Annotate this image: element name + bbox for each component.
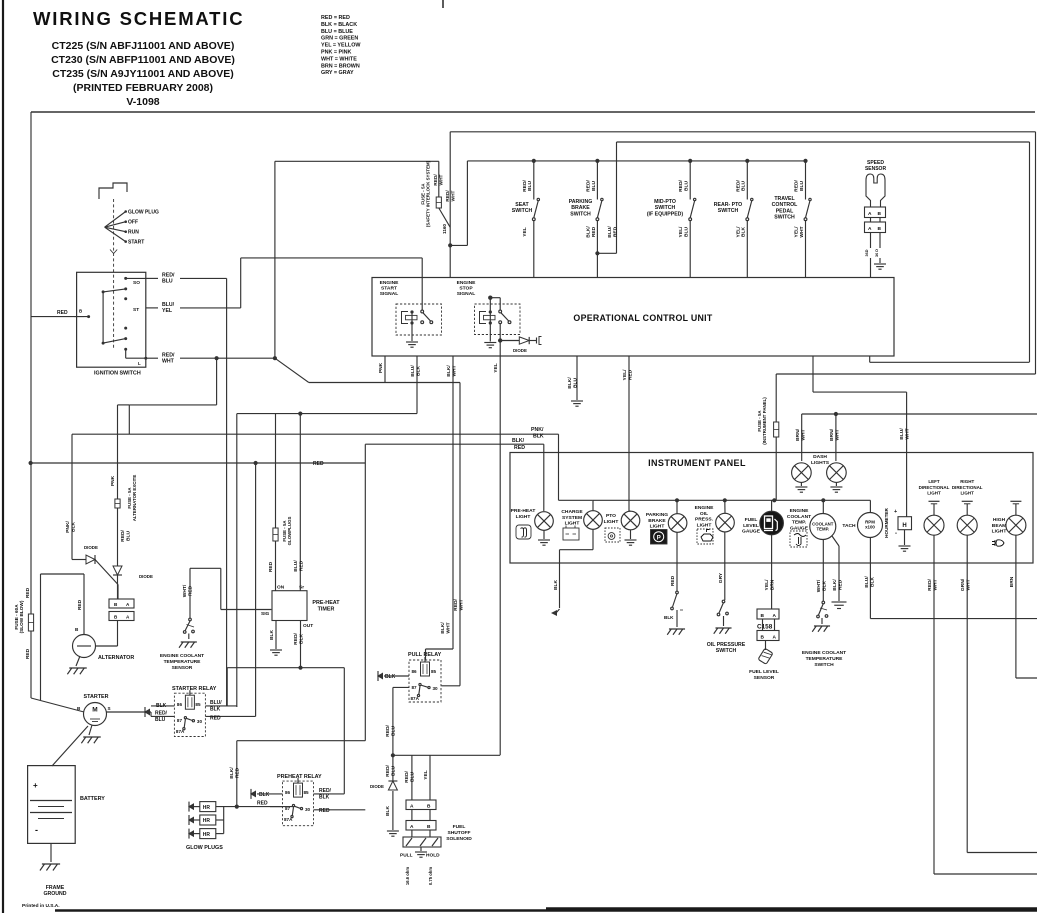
svg-text:BLU: BLU: [390, 726, 396, 737]
svg-text:SWITCH: SWITCH: [512, 208, 533, 214]
svg-text:STARTER: STARTER: [83, 694, 108, 700]
svg-text:BLU/: BLU/: [410, 365, 416, 377]
svg-text:BLK: BLK: [269, 630, 275, 641]
svg-text:COOLANT: COOLANT: [787, 514, 811, 520]
svg-text:TEMPERATURE: TEMPERATURE: [806, 656, 844, 662]
svg-text:B: B: [427, 804, 431, 810]
svg-text:RED/: RED/: [155, 711, 168, 717]
svg-text:PRESS.: PRESS.: [695, 517, 714, 523]
svg-text:LIGHT: LIGHT: [927, 491, 941, 496]
svg-text:START: START: [128, 240, 144, 246]
svg-text:HIGH: HIGH: [993, 517, 1006, 523]
svg-text:GLOWPLUGS: GLOWPLUGS: [287, 517, 292, 546]
svg-text:BLU: BLU: [684, 181, 690, 192]
svg-text:WHT: WHT: [932, 579, 938, 590]
svg-text:36 D: 36 D: [875, 249, 879, 257]
svg-text:FUEL LEVEL: FUEL LEVEL: [749, 669, 779, 675]
svg-text:0.75 ohm: 0.75 ohm: [428, 867, 433, 885]
svg-text:RED: RED: [591, 226, 597, 237]
svg-text:PREHEAT RELAY: PREHEAT RELAY: [277, 774, 322, 780]
svg-text:GRY: GRY: [718, 572, 724, 583]
svg-text:BRAKE: BRAKE: [648, 518, 666, 524]
svg-text:YEL: YEL: [162, 308, 173, 314]
svg-text:L: L: [138, 361, 141, 366]
svg-text:A: A: [410, 824, 414, 830]
svg-text:RED: RED: [234, 767, 240, 778]
svg-text:ENGINE COOLANT: ENGINE COOLANT: [160, 653, 204, 659]
svg-text:PRE-HEAT: PRE-HEAT: [511, 508, 536, 514]
svg-text:H: H: [902, 523, 906, 529]
svg-text:RED/: RED/: [319, 788, 332, 794]
svg-text:B: B: [79, 309, 82, 314]
svg-text:REAR- PTO: REAR- PTO: [714, 202, 742, 208]
svg-text:BLU: BLU: [591, 181, 597, 192]
svg-text:WIRING SCHEMATIC: WIRING SCHEMATIC: [33, 8, 244, 29]
svg-text:(SAFETY INTERLOCK SYSTEM): (SAFETY INTERLOCK SYSTEM): [426, 160, 431, 227]
svg-text:TEMP.: TEMP.: [792, 520, 807, 526]
svg-text:BLU/: BLU/: [864, 576, 870, 588]
svg-text:BLU: BLU: [155, 717, 166, 723]
svg-text:RED: RED: [25, 648, 31, 659]
svg-text:DASH: DASH: [813, 454, 827, 460]
svg-text:DIODE: DIODE: [139, 574, 153, 579]
svg-text:ON: ON: [277, 585, 285, 591]
svg-text:RED: RED: [837, 579, 843, 590]
svg-text:WHT: WHT: [904, 428, 910, 439]
svg-text:BLU: BLU: [390, 766, 396, 777]
svg-text:(SLOW BLOW): (SLOW BLOW): [19, 600, 24, 633]
svg-text:RED: RED: [298, 560, 304, 571]
svg-text:CT225 (S/N ABFJ11001 AND ABOVE: CT225 (S/N ABFJ11001 AND ABOVE): [52, 40, 235, 52]
svg-text:C158: C158: [757, 624, 773, 631]
svg-text:PRE-HEAT: PRE-HEAT: [312, 600, 340, 606]
svg-text:BLK: BLK: [298, 634, 304, 645]
svg-text:LIGHTS: LIGHTS: [811, 460, 830, 466]
svg-text:WHT: WHT: [450, 190, 456, 201]
svg-text:A: A: [410, 804, 414, 810]
svg-text:BRN: BRN: [769, 579, 775, 590]
svg-text:x100: x100: [865, 525, 875, 530]
svg-text:OIL: OIL: [700, 511, 708, 517]
svg-text:BLU: BLU: [125, 531, 131, 542]
svg-text:CHARGE: CHARGE: [561, 509, 583, 515]
svg-text:HOURMETER: HOURMETER: [884, 508, 889, 538]
svg-text:RED/: RED/: [794, 180, 800, 192]
svg-text:ALTERNATOR EXCITE: ALTERNATOR EXCITE: [132, 475, 137, 522]
svg-text:GRN = GREEN: GRN = GREEN: [321, 36, 358, 42]
svg-text:YEL = YELLOW: YEL = YELLOW: [321, 43, 361, 49]
svg-text:86: 86: [285, 790, 291, 795]
svg-text:WHT: WHT: [834, 429, 840, 440]
svg-text:YEL/: YEL/: [794, 226, 800, 238]
svg-text:BRN/: BRN/: [795, 428, 801, 441]
svg-text:RED: RED: [268, 561, 274, 572]
svg-text:RED/: RED/: [735, 180, 741, 192]
svg-text:BLU = BLUE: BLU = BLUE: [321, 29, 353, 35]
svg-text:RED: RED: [627, 369, 633, 380]
svg-text:RED/: RED/: [927, 579, 933, 591]
svg-text:B: B: [761, 613, 765, 619]
svg-text:PARKING: PARKING: [569, 199, 593, 205]
svg-text:ENGINE COOLANT: ENGINE COOLANT: [802, 650, 846, 656]
svg-text:PULL: PULL: [400, 853, 413, 859]
svg-text:BLU: BLU: [527, 181, 533, 192]
svg-text:85: 85: [304, 790, 310, 795]
svg-text:DIRECTIONAL: DIRECTIONAL: [952, 485, 983, 490]
svg-text:BRN: BRN: [1009, 576, 1015, 587]
svg-text:-: -: [35, 825, 38, 835]
svg-text:1160: 1160: [442, 224, 447, 234]
svg-text:BLK/: BLK/: [229, 767, 235, 779]
svg-text:DIODE: DIODE: [370, 784, 384, 789]
svg-text:BLU: BLU: [684, 227, 690, 238]
svg-text:BLU: BLU: [799, 181, 805, 192]
svg-text:WHT: WHT: [451, 365, 457, 376]
svg-text:YEL/: YEL/: [678, 226, 684, 238]
svg-text:LIGHT: LIGHT: [697, 522, 712, 528]
svg-text:SWITCH: SWITCH: [814, 662, 834, 668]
svg-text:YEL: YEL: [522, 227, 528, 237]
svg-text:SHUTOFF: SHUTOFF: [447, 830, 470, 836]
svg-text:A: A: [868, 211, 872, 217]
svg-text:YEL/: YEL/: [622, 369, 628, 381]
svg-text:RED/: RED/: [385, 725, 391, 737]
svg-text:YEL: YEL: [493, 363, 499, 373]
svg-text:A: A: [773, 613, 777, 619]
svg-text:RED/: RED/: [522, 180, 528, 192]
svg-text:GAUGE: GAUGE: [742, 529, 761, 535]
svg-text:BRN/: BRN/: [829, 428, 835, 441]
svg-text:INSTRUMENT PANEL: INSTRUMENT PANEL: [648, 458, 746, 468]
svg-text:HR: HR: [203, 818, 211, 824]
svg-text:BEAM: BEAM: [992, 523, 1006, 529]
svg-text:LIGHT: LIGHT: [604, 519, 619, 525]
svg-text:BLK/: BLK/: [567, 377, 573, 389]
svg-text:YEL: YEL: [423, 770, 429, 780]
svg-text:ALTERNATOR: ALTERNATOR: [98, 655, 134, 661]
svg-text:BLU: BLU: [409, 772, 415, 783]
svg-text:BLK/: BLK/: [585, 226, 591, 238]
svg-text:ENGINE: ENGINE: [695, 505, 714, 511]
svg-text:BLK: BLK: [533, 434, 544, 440]
svg-text:36D: 36D: [865, 249, 869, 256]
svg-text:BLK: BLK: [70, 522, 76, 533]
svg-text:BLK: BLK: [259, 792, 270, 798]
svg-text:IGNITION SWITCH: IGNITION SWITCH: [94, 371, 141, 377]
svg-text:RED/: RED/: [120, 530, 126, 542]
svg-text:SWITCH: SWITCH: [718, 208, 739, 214]
svg-text:BLK: BLK: [741, 227, 747, 238]
svg-text:-: -: [895, 531, 897, 537]
svg-text:PARKING: PARKING: [646, 512, 668, 518]
svg-text:ENGINE: ENGINE: [457, 280, 476, 286]
svg-text:BLK = BLACK: BLK = BLACK: [321, 22, 357, 28]
svg-text:(IF EQUIPPED): (IF EQUIPPED): [647, 211, 684, 217]
svg-text:SYSTEM: SYSTEM: [562, 515, 582, 521]
svg-text:RED/: RED/: [453, 599, 459, 611]
svg-text:V-1098: V-1098: [126, 96, 159, 108]
svg-text:PNK/: PNK/: [531, 427, 544, 433]
svg-text:S: S: [108, 706, 111, 711]
svg-text:BLK: BLK: [210, 707, 221, 713]
svg-text:LIGHT: LIGHT: [650, 524, 665, 530]
svg-text:+: +: [33, 781, 38, 790]
svg-text:LIGHT: LIGHT: [992, 529, 1007, 535]
svg-text:STARTER RELAY: STARTER RELAY: [172, 686, 217, 692]
svg-text:87: 87: [412, 685, 418, 690]
svg-text:SIGNAL: SIGNAL: [380, 291, 398, 297]
svg-text:DIRECTIONAL: DIRECTIONAL: [919, 485, 950, 490]
svg-text:RUN: RUN: [128, 230, 139, 236]
svg-text:SO: SO: [133, 280, 140, 286]
svg-text:A: A: [773, 635, 777, 641]
svg-text:GLOW PLUGS: GLOW PLUGS: [186, 845, 223, 851]
svg-text:30: 30: [197, 719, 203, 724]
svg-text:RED/: RED/: [433, 174, 439, 186]
svg-text:BATTERY: BATTERY: [80, 796, 105, 802]
svg-text:OFF: OFF: [128, 220, 138, 226]
svg-text:START: START: [381, 286, 397, 292]
svg-text:RED/: RED/: [585, 180, 591, 192]
svg-text:ENGINE: ENGINE: [790, 508, 809, 514]
svg-text:PNK: PNK: [378, 362, 384, 373]
svg-text:GAUGE: GAUGE: [790, 525, 809, 531]
svg-text:BLK/: BLK/: [446, 365, 452, 377]
svg-text:SENSOR: SENSOR: [754, 675, 775, 681]
svg-text:BLK: BLK: [415, 366, 421, 377]
svg-text:PNK = PINK: PNK = PINK: [321, 50, 352, 56]
svg-text:LEVEL: LEVEL: [743, 523, 759, 529]
svg-text:PTO: PTO: [606, 513, 616, 519]
svg-text:SWITCH: SWITCH: [774, 215, 795, 221]
svg-text:RED: RED: [25, 587, 31, 598]
svg-text:SOLENOID: SOLENOID: [446, 836, 472, 842]
svg-text:(PRINTED FEBRUARY 2008): (PRINTED FEBRUARY 2008): [73, 82, 213, 94]
svg-text:BRAKE: BRAKE: [571, 205, 590, 211]
svg-text:SIGNAL: SIGNAL: [457, 291, 475, 297]
svg-text:86: 86: [412, 669, 418, 674]
svg-text:BLK: BLK: [319, 795, 330, 801]
svg-text:Printed in U.S.A.: Printed in U.S.A.: [22, 903, 60, 909]
svg-text:RED: RED: [313, 461, 324, 467]
svg-text:FUEL: FUEL: [453, 824, 466, 830]
svg-text:RED: RED: [670, 575, 676, 586]
svg-text:BLK: BLK: [385, 674, 396, 680]
svg-text:MID-PTO: MID-PTO: [654, 199, 676, 205]
svg-text:TACH: TACH: [842, 523, 856, 529]
svg-text:30: 30: [305, 807, 311, 812]
svg-text:SWITCH: SWITCH: [655, 205, 676, 211]
svg-text:RED/: RED/: [385, 765, 391, 777]
svg-text:ST: ST: [133, 307, 139, 313]
svg-text:WHT: WHT: [162, 358, 175, 364]
svg-text:BLK: BLK: [385, 806, 391, 817]
svg-text:CONTROL: CONTROL: [772, 202, 798, 208]
svg-text:BLK: BLK: [664, 615, 674, 620]
svg-text:GLOW PLUG: GLOW PLUG: [128, 210, 159, 216]
svg-text:PEDAL: PEDAL: [776, 208, 794, 214]
svg-text:RED: RED: [612, 226, 618, 237]
svg-text:CT235 (S/N A9JY11001 AND ABOVE: CT235 (S/N A9JY11001 AND ABOVE): [52, 68, 233, 80]
svg-text:FRAME: FRAME: [46, 885, 65, 891]
svg-text:TRAVEL: TRAVEL: [774, 196, 795, 202]
svg-text:B: B: [761, 635, 765, 641]
svg-text:WHT/: WHT/: [182, 584, 188, 597]
svg-text:BLK: BLK: [553, 580, 559, 591]
svg-text:SEAT: SEAT: [515, 202, 529, 208]
svg-text:CT230 (S/N ABFP11001 AND ABOVE: CT230 (S/N ABFP11001 AND ABOVE): [51, 54, 235, 66]
svg-text:YEL/: YEL/: [764, 579, 770, 591]
svg-text:TEMP.: TEMP.: [817, 527, 830, 532]
svg-text:RED/: RED/: [293, 633, 299, 645]
svg-text:BLU: BLU: [741, 181, 747, 192]
svg-text:B: B: [878, 211, 882, 217]
svg-text:85: 85: [195, 702, 201, 707]
svg-text:85: 85: [431, 669, 437, 674]
svg-text:+: +: [894, 509, 897, 515]
svg-text:WHT/: WHT/: [816, 579, 822, 592]
svg-text:PNK/: PNK/: [65, 521, 71, 533]
svg-text:HR: HR: [203, 805, 211, 811]
svg-text:A: A: [868, 226, 872, 232]
svg-text:WHT: WHT: [445, 622, 451, 633]
svg-text:BRN = BROWN: BRN = BROWN: [321, 63, 360, 69]
svg-text:(INSTRUMENT PANEL): (INSTRUMENT PANEL): [762, 397, 767, 445]
svg-text:RED: RED: [514, 445, 525, 451]
svg-text:BLU: BLU: [572, 378, 578, 389]
svg-text:FUEL: FUEL: [745, 517, 758, 523]
svg-text:PNK: PNK: [110, 475, 116, 486]
svg-text:OIL PRESSURE: OIL PRESSURE: [707, 642, 746, 648]
svg-text:SWITCH: SWITCH: [570, 211, 591, 217]
svg-text:RED: RED: [319, 808, 330, 814]
svg-text:SENSOR: SENSOR: [172, 665, 193, 671]
svg-text:HOLD: HOLD: [426, 853, 440, 859]
svg-text:RED: RED: [77, 599, 83, 610]
svg-text:RIGHT: RIGHT: [960, 479, 974, 484]
svg-text:DIODE: DIODE: [84, 545, 98, 550]
svg-text:BLU/: BLU/: [293, 560, 299, 572]
svg-text:WHT: WHT: [799, 226, 805, 237]
svg-text:BLU/: BLU/: [899, 428, 905, 440]
svg-text:GROUND: GROUND: [43, 891, 66, 897]
svg-text:WHT: WHT: [438, 174, 444, 185]
svg-text:16.6 ohm: 16.6 ohm: [405, 867, 410, 885]
svg-text:P: P: [657, 535, 661, 541]
svg-text:86: 86: [177, 702, 183, 707]
svg-text:B: B: [427, 824, 431, 830]
svg-text:RED: RED: [57, 310, 68, 316]
svg-text:SWITCH: SWITCH: [716, 648, 737, 654]
svg-text:30: 30: [433, 686, 439, 691]
svg-text:OPERATIONAL CONTROL UNIT: OPERATIONAL CONTROL UNIT: [573, 313, 712, 323]
svg-text:B: B: [878, 226, 882, 232]
svg-text:WHT: WHT: [800, 429, 806, 440]
svg-text:BLK/: BLK/: [440, 622, 446, 634]
svg-text:RED: RED: [257, 801, 268, 807]
svg-text:GRY = GRAY: GRY = GRAY: [321, 70, 354, 76]
svg-text:OUT: OUT: [303, 623, 313, 629]
svg-text:WHT: WHT: [965, 579, 971, 590]
svg-text:BLU: BLU: [162, 279, 173, 285]
svg-text:WHT = WHITE: WHT = WHITE: [321, 56, 357, 62]
svg-text:BLK/: BLK/: [832, 579, 838, 591]
svg-text:BLU/: BLU/: [210, 700, 222, 706]
svg-text:ENGINE: ENGINE: [380, 280, 399, 286]
svg-text:LIGHT: LIGHT: [565, 521, 580, 527]
svg-text:BLK/: BLK/: [512, 438, 525, 444]
svg-text:DIODE: DIODE: [513, 348, 527, 353]
svg-text:SIG: SIG: [261, 611, 270, 617]
svg-text:RED/: RED/: [678, 180, 684, 192]
svg-text:BLK: BLK: [821, 581, 827, 592]
svg-text:RED/: RED/: [404, 771, 410, 783]
svg-text:HR: HR: [203, 832, 211, 838]
svg-text:WHT: WHT: [458, 599, 464, 610]
svg-text:87: 87: [177, 718, 183, 723]
svg-text:BLK: BLK: [869, 577, 875, 588]
svg-text:LIGHT: LIGHT: [516, 514, 531, 520]
svg-text:RED: RED: [210, 716, 221, 722]
svg-text:LIGHT: LIGHT: [960, 491, 974, 496]
svg-text:RED/: RED/: [445, 190, 451, 202]
svg-text:RED = RED: RED = RED: [321, 15, 350, 21]
svg-text:GRN/: GRN/: [960, 578, 966, 591]
svg-text:M: M: [92, 707, 97, 714]
svg-text:TIMER: TIMER: [318, 606, 335, 612]
svg-text:BLU/: BLU/: [607, 226, 613, 238]
svg-text:SENSOR: SENSOR: [865, 166, 887, 172]
svg-text:STOP: STOP: [459, 286, 473, 292]
svg-text:YEL/: YEL/: [735, 226, 741, 238]
svg-text:TEMPERATURE: TEMPERATURE: [164, 659, 202, 665]
svg-text:LEFT: LEFT: [928, 479, 939, 484]
